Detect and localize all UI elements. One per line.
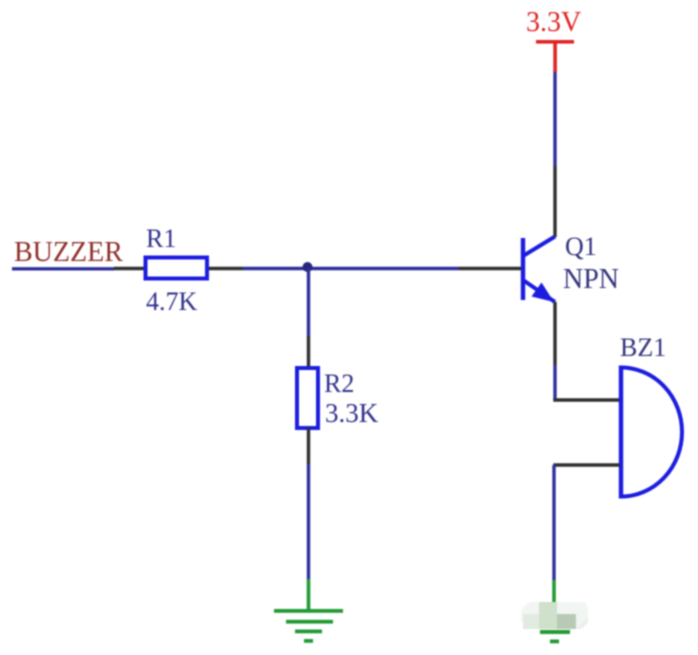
transistor Q1 emitter stroke bbox=[523, 280, 555, 302]
svg-text:3.3V: 3.3V bbox=[526, 7, 581, 38]
ground GND1 lead bbox=[307, 579, 311, 611]
ground GND2 bar 4 bbox=[550, 640, 559, 644]
svg-text:3.3K: 3.3K bbox=[325, 398, 379, 428]
ground GND1 bar 4 bbox=[304, 639, 313, 643]
resistor R1 right pin bbox=[209, 267, 243, 270]
transistor Q1 emitter arrow bbox=[532, 283, 555, 303]
buzzer BZ1 dome bbox=[621, 368, 682, 497]
buzzer BZ1 pin 2 bbox=[553, 463, 620, 466]
resistor R1 left pin bbox=[114, 267, 145, 270]
svg-text:Q1: Q1 bbox=[565, 232, 597, 261]
resistor R2 top pin bbox=[307, 336, 310, 367]
transistor Q1 collector stroke bbox=[523, 237, 555, 257]
ground GND2 bar 3 bbox=[540, 630, 570, 634]
buzzer BZ1 flat edge bbox=[619, 366, 623, 499]
wire R2 to ground bbox=[307, 464, 310, 579]
Q1 collector pin bbox=[553, 166, 556, 237]
wire power to Q1 collector bbox=[553, 72, 556, 166]
power symbol 3.3V bar bbox=[536, 40, 574, 44]
svg-text:BUZZER: BUZZER bbox=[14, 237, 123, 268]
ground GND1 bar 2 bbox=[286, 620, 333, 624]
wire BZ1 to ground bbox=[552, 465, 555, 580]
wire R1 to Q1 base bbox=[243, 267, 459, 270]
buzzer BZ1 pin 1 bbox=[553, 398, 620, 401]
svg-text:R1: R1 bbox=[146, 224, 176, 253]
Q1 emitter pin bbox=[553, 302, 556, 365]
watermark mosaic patch bbox=[521, 602, 588, 629]
svg-text:R2: R2 bbox=[324, 369, 354, 398]
svg-text:4.7K: 4.7K bbox=[146, 287, 198, 316]
resistor R1 body bbox=[146, 258, 208, 279]
svg-text:BZ1: BZ1 bbox=[620, 333, 666, 362]
wire BUZZER to R1 bbox=[12, 267, 114, 270]
ground GND2 lead bbox=[552, 580, 556, 610]
ground GND1 bar 1 bbox=[274, 609, 343, 613]
wire junction to R2 bbox=[307, 269, 310, 337]
transistor Q1 base bar bbox=[521, 238, 525, 300]
ground GND1 bar 3 bbox=[295, 630, 322, 634]
wire emitter to BZ1 bbox=[553, 365, 556, 400]
Q1 base pin bbox=[459, 267, 521, 270]
power symbol stem bbox=[553, 41, 557, 72]
junction node dot bbox=[303, 262, 313, 272]
resistor R2 bottom pin bbox=[307, 428, 310, 464]
svg-text:NPN: NPN bbox=[563, 264, 619, 295]
resistor R2 body bbox=[297, 368, 318, 428]
